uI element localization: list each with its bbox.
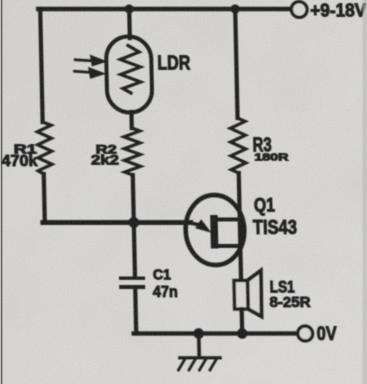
terminal 0V (298, 326, 313, 341)
wire middle junction to C1 (134, 222, 135, 277)
junction dot top right (R3 branch) (230, 4, 239, 13)
label TIS43 (253, 217, 297, 239)
capacitor C1 (119, 277, 145, 290)
wire speaker to bottom rail (240, 309, 245, 334)
label R1 (14, 142, 37, 157)
LDR internal resistor zigzag (120, 46, 141, 94)
junction dot top (LDR branch) (124, 4, 133, 13)
resistor R2 (124, 128, 141, 175)
wire LDR top lead (127, 9, 132, 38)
transistor Q1 base-1 stub (218, 244, 241, 248)
junction node middle (R2/C1/emitter) (128, 217, 139, 228)
label C1 (153, 267, 171, 284)
label 470k (1, 153, 38, 170)
transistor Q1 base bar (210, 215, 218, 249)
wire left vertical (R1 to middle rail) (44, 174, 45, 222)
transistor Q1 base-2 stub (218, 218, 241, 222)
wire C1 to bottom rail (133, 289, 138, 334)
ground (178, 334, 221, 371)
loudspeaker LS1 frame (234, 281, 248, 310)
label +9-18V (310, 1, 366, 21)
label LS1 (270, 279, 295, 297)
label LDR (157, 52, 191, 74)
label R2 (96, 143, 118, 157)
wire bottom rail (134, 331, 298, 335)
scan artifact right edge shading (363, 0, 367, 384)
wire R2 to middle junction (133, 175, 134, 222)
label 2k2 (91, 152, 120, 168)
junction dot ground / bottom rail (193, 328, 204, 339)
label Q1 (254, 196, 276, 217)
label 0V (316, 323, 336, 345)
label R3 (252, 135, 271, 157)
LDR envelope (106, 37, 153, 113)
resistor R3 (230, 118, 246, 173)
resistor R1 (37, 122, 52, 174)
junction dot speaker / bottom rail (237, 328, 248, 339)
scan artifact left edge line (1, 0, 3, 384)
label 47n (153, 284, 178, 301)
terminal +9-18V (291, 2, 307, 18)
wire right vertical through transistor (R3 to speaker) (239, 173, 241, 281)
label 8-25R (269, 294, 311, 311)
wire LDR bottom lead (129, 112, 134, 128)
wire top supply rail (38, 7, 291, 11)
wire middle horizontal rail (43, 220, 191, 225)
wire left vertical (top rail to R1) (40, 9, 42, 122)
transistor Q1 envelope circle (185, 195, 245, 265)
wire R3 top lead (235, 9, 237, 118)
transistor Q1 emitter arrow (186, 219, 212, 233)
LDR light arrow lower (74, 67, 106, 79)
LDR light arrow upper (75, 55, 107, 67)
label 180R (254, 151, 289, 163)
loudspeaker LS1 cone (247, 271, 261, 317)
